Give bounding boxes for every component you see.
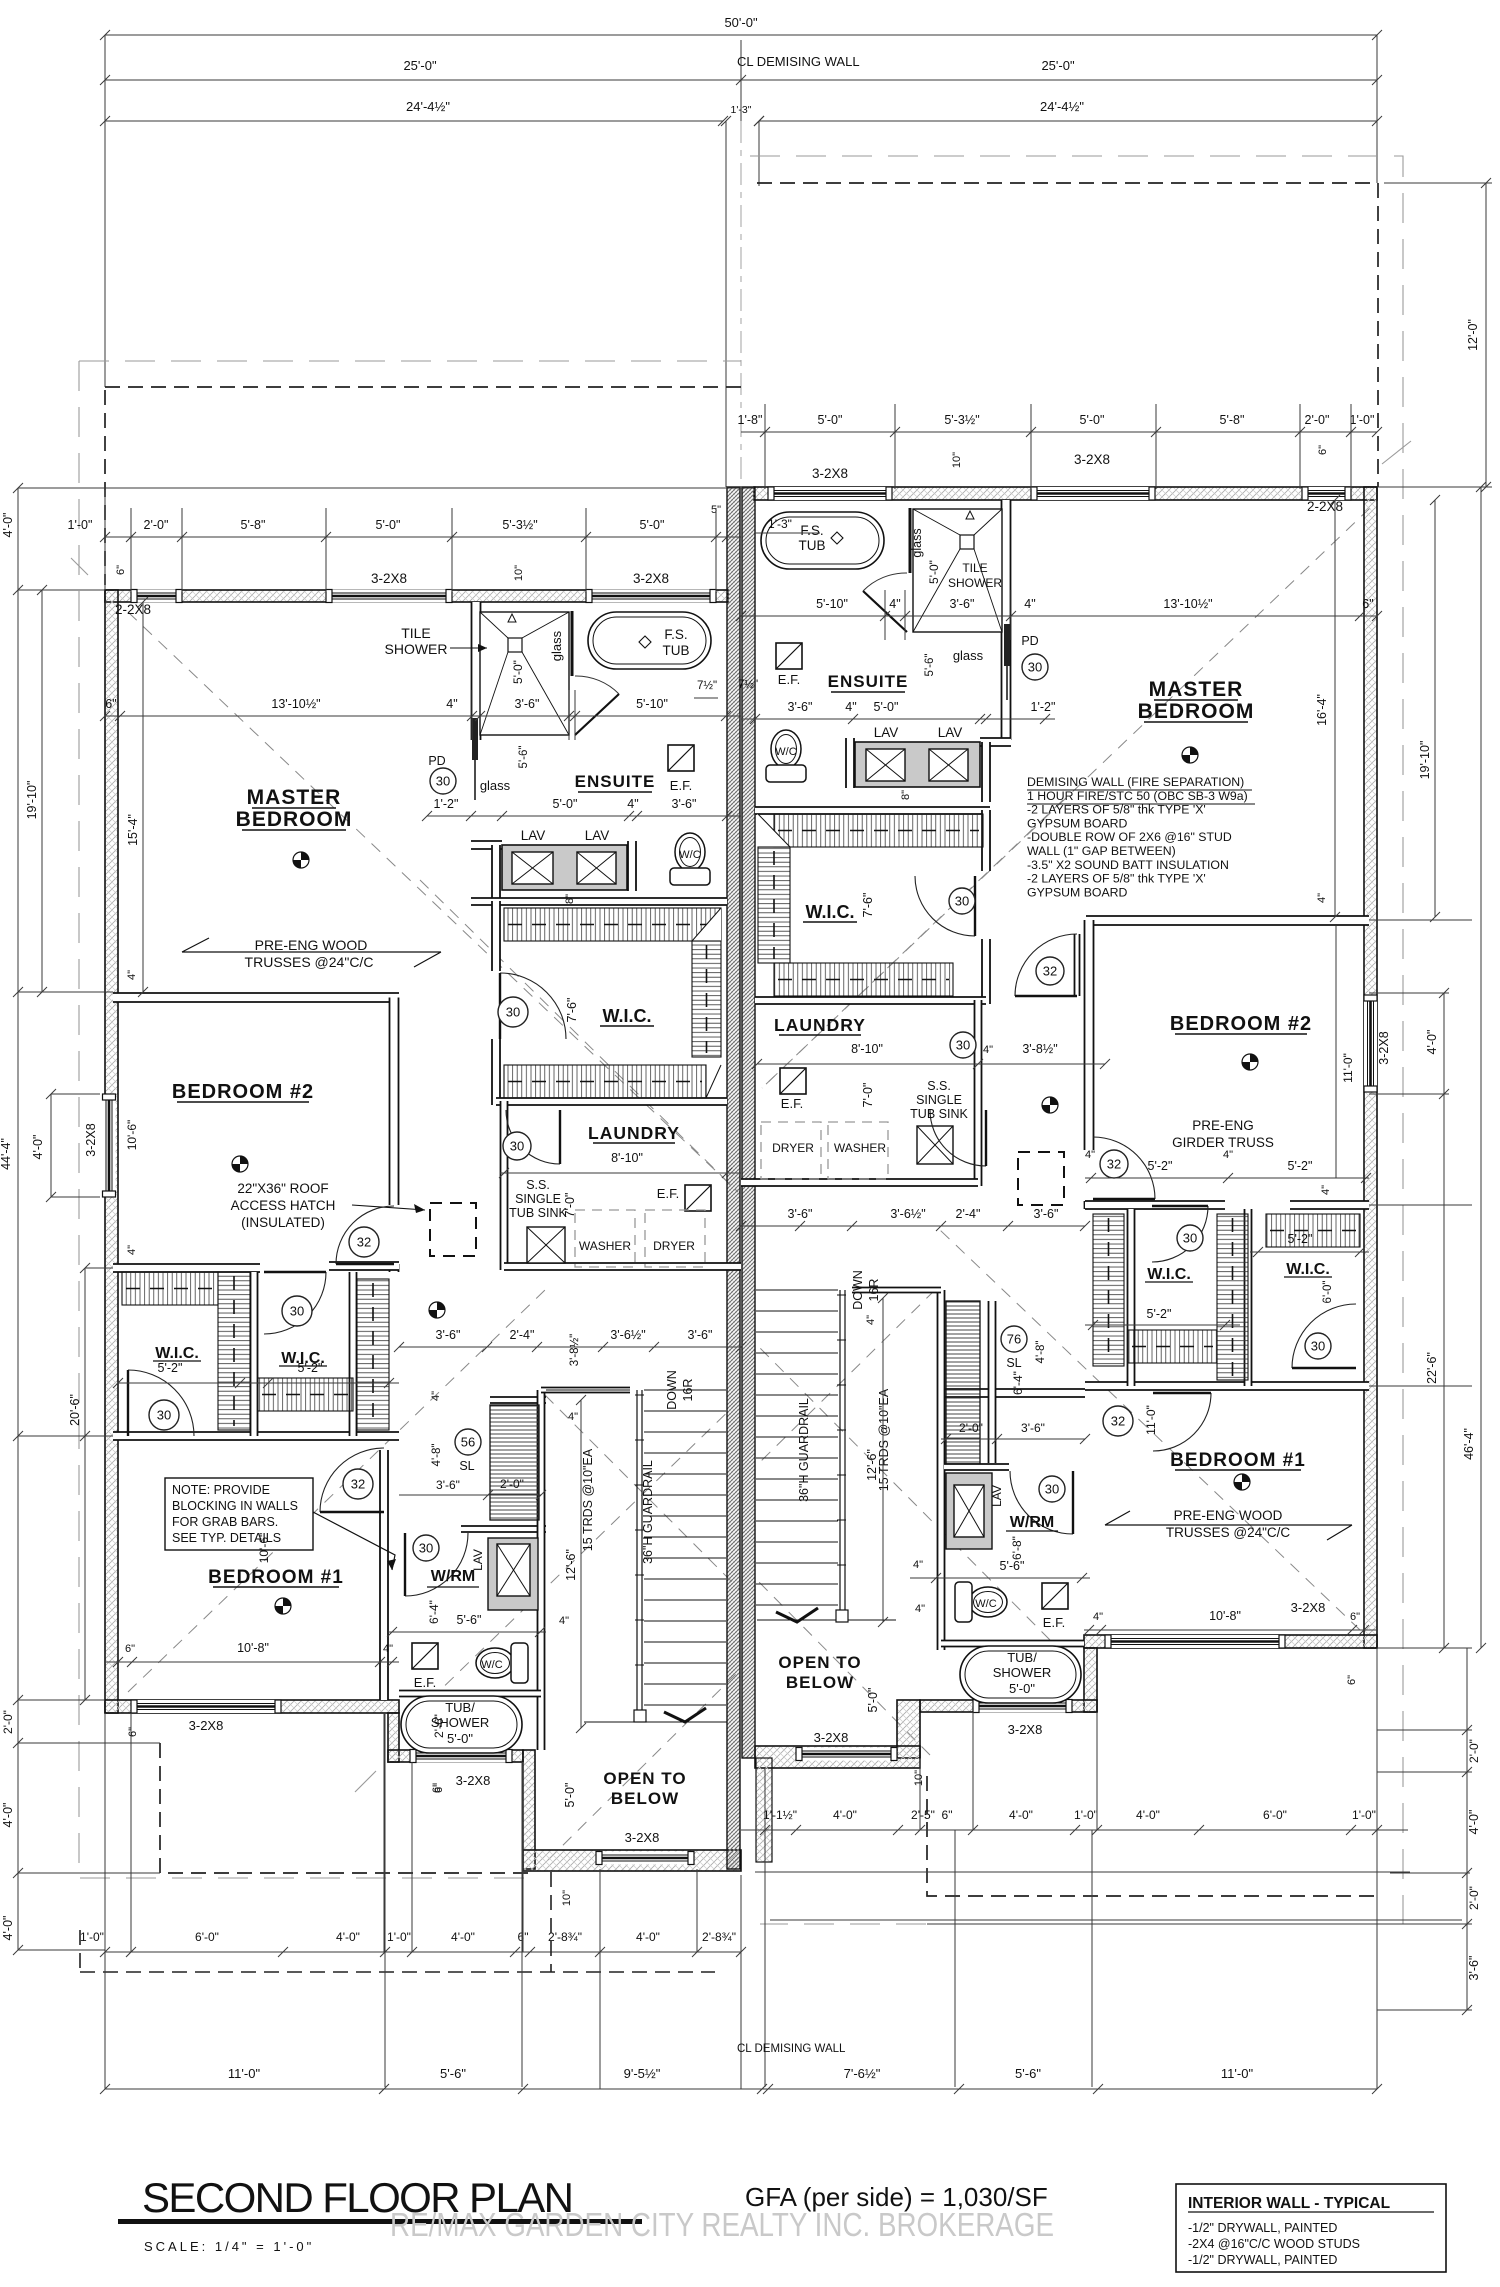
svg-text:22'-6": 22'-6" (1425, 1352, 1439, 1384)
svg-text:3'-6½": 3'-6½" (610, 1328, 645, 1342)
extension lines right ensuite row (884, 590, 886, 640)
svg-text:TUB SINK: TUB SINK (910, 1107, 968, 1121)
shower right glass door diag (863, 591, 907, 632)
svg-text:5'-2": 5'-2" (1288, 1232, 1313, 1246)
roof slope dashed diagonals left unit (128, 508, 1370, 1860)
svg-text:MASTER: MASTER (1149, 678, 1244, 701)
svg-text:24'-4½": 24'-4½" (1040, 99, 1084, 114)
svg-text:1'-1½": 1'-1½" (763, 1808, 797, 1822)
svg-text:5'-6": 5'-6" (518, 746, 530, 769)
svg-text:BEDROOM: BEDROOM (236, 808, 353, 831)
wall wic/laundry divider (496, 1098, 727, 1105)
svg-text:5'-0": 5'-0" (874, 700, 899, 714)
shower right unit pan (913, 509, 1002, 632)
svg-text:3'-6": 3'-6" (515, 697, 540, 711)
svg-text:4": 4" (1085, 1149, 1095, 1161)
svg-text:LAUNDRY: LAUNDRY (774, 1015, 866, 1035)
svg-text:PRE-ENG: PRE-ENG (1192, 1118, 1254, 1133)
svg-text:7½": 7½" (697, 680, 717, 692)
svg-text:5'-2": 5'-2" (158, 1361, 183, 1375)
svg-text:2'-0": 2'-0" (959, 1421, 983, 1435)
svg-text:F.S.: F.S. (800, 523, 823, 538)
svg-text:30: 30 (419, 1541, 433, 1556)
svg-text:5'-2": 5'-2" (1148, 1159, 1173, 1173)
svg-text:3-2X8: 3-2X8 (633, 571, 669, 586)
svg-text:3'-8½": 3'-8½" (1022, 1042, 1057, 1056)
svg-text:4": 4" (1320, 1185, 1332, 1195)
svg-text:4'-0": 4'-0" (1136, 1808, 1160, 1822)
door 30 left wic2 closet (264, 1272, 326, 1334)
toilet left wrm (476, 1648, 514, 1678)
svg-text:12'-0": 12'-0" (1466, 319, 1480, 351)
svg-text:glass: glass (910, 528, 924, 557)
svg-text:6": 6" (1362, 597, 1373, 611)
lav right wrm (946, 1473, 992, 1549)
door 30 right wic (915, 876, 975, 936)
door 30 right wrm (1010, 1471, 1073, 1534)
door 32 right bedroom1 (1153, 1393, 1211, 1451)
dimension hall row left (399, 1346, 741, 1348)
svg-text:GFA (per side) = 1,030/SF: GFA (per side) = 1,030/SF (745, 2182, 1048, 2212)
pocket door dark bar right shower (1004, 624, 1010, 666)
svg-text:GIRDER TRUSS: GIRDER TRUSS (1172, 1135, 1274, 1150)
svg-text:3-2X8: 3-2X8 (1074, 452, 1110, 467)
wire CL centerline top (740, 40, 742, 121)
door 30 left laundry (506, 1110, 560, 1164)
svg-text:6'-0": 6'-0" (195, 1930, 219, 1944)
svg-text:4": 4" (430, 1391, 442, 1401)
wire extension right top (1376, 35, 1378, 183)
svg-text:3'-6": 3'-6" (1034, 1207, 1059, 1221)
wall bedroom2 east (390, 998, 399, 1206)
svg-text:W/C: W/C (481, 1659, 502, 1671)
svg-text:E.F.: E.F. (1043, 1615, 1065, 1630)
svg-text:4": 4" (889, 597, 900, 611)
svg-text:5'-10": 5'-10" (636, 697, 668, 711)
svg-text:4": 4" (559, 1615, 569, 1627)
roof slope dashed diagonals right unit (762, 508, 1370, 1088)
svg-text:WASHER: WASHER (834, 1141, 887, 1155)
svg-text:12'-6": 12'-6" (564, 1549, 578, 1581)
wall vanity west (492, 845, 500, 905)
svg-text:TILE: TILE (962, 561, 987, 575)
svg-text:3'-6": 3'-6" (688, 1328, 713, 1342)
svg-text:10": 10" (513, 565, 525, 581)
wall right master south (1086, 916, 1369, 925)
svg-text:3-2X8: 3-2X8 (625, 1830, 660, 1845)
stair left unit treads (644, 1390, 726, 1705)
roofline left unit (black dashed) (105, 386, 741, 388)
node star bedroom2 right (1242, 1054, 1258, 1070)
wire CL centerline bottom (740, 1875, 742, 2089)
svg-text:3-2X8: 3-2X8 (371, 571, 407, 586)
svg-text:4": 4" (845, 700, 856, 714)
svg-text:10'-8": 10'-8" (1209, 1609, 1241, 1623)
guard louver band left (56 SL) (490, 1405, 539, 1520)
wall wic west upper (492, 901, 500, 971)
exhaust fan right wrm (1042, 1583, 1068, 1609)
roofline right unit (black dashed) (105, 183, 1378, 1896)
wall closets top (113, 1264, 260, 1272)
svg-text:5'-10": 5'-10" (816, 597, 848, 611)
wall ensuite/wic divider (471, 898, 727, 905)
svg-text:10'-6": 10'-6" (125, 1120, 139, 1151)
wall right laundry south (741, 1179, 978, 1186)
svg-text:5'-6": 5'-6" (924, 654, 936, 677)
stair left opening edge (584, 1721, 727, 1723)
wall right vanity east cap (846, 738, 854, 788)
svg-text:10'-8": 10'-8" (237, 1641, 269, 1655)
laundry tub sink left (527, 1227, 565, 1263)
svg-text:TUB SINK: TUB SINK (509, 1206, 567, 1220)
wall right wic east upper (982, 810, 990, 871)
svg-text:W.I.C.: W.I.C. (806, 902, 855, 922)
svg-text:8'-10": 8'-10" (611, 1151, 643, 1165)
window W3 3-2X8 left top (586, 590, 716, 603)
door 30 right wic-east closet (1292, 1304, 1356, 1368)
tub/shower right wrm (960, 1646, 1081, 1703)
svg-text:DOWN: DOWN (851, 1270, 865, 1310)
svg-text:WALL (1" GAP BETWEEN): WALL (1" GAP BETWEEN) (1027, 844, 1176, 858)
dimension bottom row left unit (105, 1951, 741, 1953)
svg-text:15 TRDS @10"EA: 15 TRDS @10"EA (581, 1448, 595, 1551)
svg-text:7'-6": 7'-6" (861, 893, 875, 918)
svg-text:BEDROOM #1: BEDROOM #1 (1170, 1450, 1306, 1471)
svg-text:7'-6": 7'-6" (565, 998, 579, 1023)
svg-text:11'-0": 11'-0" (228, 2066, 261, 2081)
svg-text:4'-0": 4'-0" (31, 1135, 45, 1160)
svg-text:25'-0": 25'-0" (403, 58, 437, 73)
window W1 2-2X8 left top (131, 590, 182, 603)
svg-text:W/RM: W/RM (1010, 1514, 1054, 1531)
wall laundry west (501, 1101, 508, 1270)
wall right bedroom2 west (1085, 920, 1094, 1150)
toilet left ensuite W/C (675, 833, 705, 871)
svg-text:MASTER: MASTER (247, 786, 342, 809)
svg-text:TUB: TUB (663, 643, 690, 658)
svg-text:3'-6": 3'-6" (672, 797, 697, 811)
svg-text:4": 4" (383, 1643, 393, 1655)
wall right wrm north (944, 1464, 1009, 1470)
node star bedroom2 left (232, 1156, 248, 1172)
svg-text:SINGLE: SINGLE (515, 1192, 561, 1206)
shower right glass panel (909, 508, 912, 573)
svg-text:11'-0": 11'-0" (1144, 1405, 1158, 1435)
svg-text:6'-4": 6'-4" (1011, 1371, 1025, 1395)
svg-text:2'-0": 2'-0" (1467, 1886, 1481, 1910)
svg-text:LAV: LAV (521, 828, 546, 843)
window right top 3-2X8 b (1031, 487, 1155, 500)
wall right hall-stair top (852, 1288, 941, 1293)
svg-text:4'-8": 4'-8" (431, 1444, 443, 1467)
window right top 3-2X8 a (768, 487, 892, 500)
stair right unit treads (756, 1290, 838, 1605)
wall left vanity east cap (628, 841, 636, 891)
svg-text:FOR GRAB BARS.: FOR GRAB BARS. (172, 1515, 278, 1529)
svg-text:W/C: W/C (975, 1598, 996, 1610)
svg-text:5'-0": 5'-0" (640, 518, 665, 532)
svg-text:4": 4" (1024, 597, 1035, 611)
svg-text:5'-0": 5'-0" (376, 518, 401, 532)
window right stair bay south 3-2X8 (796, 1748, 897, 1761)
svg-text:2-2X8: 2-2X8 (1307, 499, 1343, 514)
closet shelving wic top band (504, 908, 721, 941)
wall right hall west / stair guard wall (938, 1290, 945, 1592)
window right wrm bay south 3-2X8 (973, 1700, 1072, 1713)
dimension 24-4half right (759, 120, 1377, 122)
dimension left margin 19-10 (41, 590, 43, 992)
svg-text:10": 10" (561, 1890, 573, 1906)
dimension row right top windows (741, 431, 1377, 433)
wall closet mid divider (251, 1272, 258, 1436)
toilet right wrm (969, 1587, 1007, 1617)
svg-text:6'-0": 6'-0" (1322, 1281, 1334, 1304)
svg-text:2'-8¾": 2'-8¾" (702, 1930, 736, 1944)
svg-text:LAV: LAV (874, 725, 899, 740)
wall right-unit stair bay south (755, 1746, 920, 1768)
svg-text:ACCESS HATCH: ACCESS HATCH (231, 1198, 336, 1213)
svg-text:-DOUBLE ROW OF 2X6 @16" STUD: -DOUBLE ROW OF 2X6 @16" STUD (1027, 830, 1232, 844)
svg-text:24'-4½": 24'-4½" (406, 99, 450, 114)
svg-text:30: 30 (956, 1038, 970, 1053)
laundry tub sink right (917, 1126, 953, 1164)
window right wall 3-2X8 (1364, 995, 1377, 1092)
svg-text:3'-6": 3'-6" (436, 1478, 460, 1492)
svg-text:1'-2": 1'-2" (434, 797, 459, 811)
svg-text:4": 4" (1223, 1149, 1233, 1161)
svg-text:6": 6" (1346, 1675, 1358, 1685)
svg-text:6": 6" (1317, 445, 1329, 455)
svg-text:BEDROOM #2: BEDROOM #2 (172, 1081, 314, 1103)
svg-text:W.I.C.: W.I.C. (155, 1345, 199, 1362)
title underline bar (118, 2219, 642, 2224)
svg-text:32: 32 (351, 1477, 365, 1492)
dimension row left ensuite upper (105, 715, 741, 717)
closet shelving right wic west bottom band (1128, 1330, 1217, 1363)
node light/smoke star master left (293, 852, 309, 868)
closet shelving right wic bottom band (774, 963, 953, 996)
wall wrm/tub divider (399, 1691, 541, 1697)
svg-text:4": 4" (126, 1245, 138, 1255)
dimension right margin 12-0 (1485, 183, 1487, 487)
dimension right margin 19-10 (1434, 500, 1436, 917)
svg-text:30: 30 (1311, 1339, 1325, 1354)
svg-text:TUB/: TUB/ (1007, 1650, 1037, 1665)
svg-text:15 TRDS @10"EA: 15 TRDS @10"EA (877, 1388, 891, 1491)
extension lines right window dims (764, 404, 766, 489)
marker 76 SL right (1001, 1326, 1027, 1352)
svg-text:4'-0": 4'-0" (1467, 1810, 1481, 1835)
svg-text:11'-0": 11'-0" (1221, 2066, 1254, 2081)
svg-text:8'-10": 8'-10" (851, 1042, 883, 1056)
svg-text:CL DEMISING WALL: CL DEMISING WALL (737, 54, 860, 69)
svg-text:W/RM: W/RM (431, 1568, 475, 1585)
svg-text:3'-6": 3'-6" (1021, 1421, 1045, 1435)
svg-text:3'-8½": 3'-8½" (569, 1334, 581, 1367)
svg-text:4": 4" (913, 1559, 923, 1571)
closet hatch column right mid (1217, 1214, 1248, 1380)
window W2 3-2X8 left top (326, 590, 452, 603)
svg-text:NOTE: PROVIDE: NOTE: PROVIDE (172, 1483, 270, 1497)
svg-text:10'-6": 10'-6" (257, 1533, 271, 1564)
svg-text:3-2X8: 3-2X8 (1377, 1031, 1391, 1064)
svg-text:2'-0": 2'-0" (1467, 1739, 1481, 1763)
svg-text:DRYER: DRYER (653, 1239, 695, 1253)
door 30 right wic-west closet (1152, 1206, 1208, 1262)
svg-text:5'-0": 5'-0" (447, 1731, 473, 1746)
svg-text:2-2X8: 2-2X8 (115, 602, 151, 617)
svg-text:5'-0": 5'-0" (866, 1688, 880, 1713)
svg-text:16R: 16R (867, 1279, 881, 1302)
svg-text:CL DEMISING WALL: CL DEMISING WALL (737, 2043, 846, 2055)
svg-text:5'-0": 5'-0" (553, 797, 578, 811)
svg-text:3'-6": 3'-6" (1467, 1956, 1481, 1981)
exhaust fan left wrm (412, 1643, 438, 1669)
svg-text:30: 30 (290, 1304, 304, 1319)
wall right hall door leaf wall (1075, 934, 1080, 996)
wall master/bedroom2 divider (113, 993, 399, 1002)
svg-text:S.S.: S.S. (526, 1178, 550, 1192)
window bedroom1 south 3-2X8 (131, 1700, 281, 1713)
wall left-unit west exterior (105, 590, 118, 1713)
wall right guard band east (989, 1301, 996, 1463)
svg-text:5'-0": 5'-0" (927, 560, 941, 584)
svg-text:36"H GUARDRAIL: 36"H GUARDRAIL (797, 1398, 811, 1502)
demising wall left leaf (727, 487, 740, 1869)
svg-text:12'-6": 12'-6" (865, 1449, 879, 1481)
wall right-unit east exterior (1364, 487, 1377, 1648)
wall shower west left-unit (472, 602, 481, 740)
svg-text:1'-0": 1'-0" (1352, 1808, 1376, 1822)
svg-text:W/C: W/C (679, 849, 700, 861)
svg-text:6": 6" (105, 697, 116, 711)
wall right-unit wrm bay east (1084, 1648, 1097, 1712)
interior wall legend box (1176, 2184, 1446, 2272)
svg-text:OPEN TO: OPEN TO (603, 1769, 686, 1788)
svg-text:8": 8" (900, 790, 912, 800)
svg-text:30: 30 (955, 894, 969, 909)
svg-text:4'-0": 4'-0" (1, 1916, 15, 1941)
svg-text:30: 30 (1183, 1231, 1197, 1246)
extension lines right margin (1377, 486, 1472, 488)
svg-text:4": 4" (865, 1315, 877, 1325)
svg-text:36"H GUARDRAIL: 36"H GUARDRAIL (641, 1460, 655, 1564)
node star master right (1182, 747, 1198, 763)
svg-text:5'-6": 5'-6" (1015, 2066, 1041, 2081)
svg-text:30: 30 (1045, 1482, 1059, 1497)
wall bedroom2 east lower stub (390, 1264, 399, 1272)
wall wrm east (538, 1692, 545, 1750)
wall right ensuite/wic divider (755, 807, 990, 814)
wall right-unit bedroom1 south exterior (1084, 1635, 1377, 1648)
svg-text:3'-6½": 3'-6½" (890, 1207, 925, 1221)
washer dryer dashed left (575, 1210, 635, 1267)
stair right down arrow chevron (776, 1608, 818, 1622)
svg-text:7'-0": 7'-0" (861, 1083, 875, 1108)
wall right shower east (1002, 500, 1011, 740)
wall right closets top (1085, 1201, 1225, 1209)
dimension right margin 46-4 (1480, 487, 1482, 1648)
demising stub below right bay (756, 1758, 772, 1862)
svg-text:6": 6" (1350, 1611, 1360, 1623)
svg-text:3'-6": 3'-6" (436, 1328, 461, 1342)
svg-text:SINGLE: SINGLE (916, 1093, 962, 1107)
svg-text:PD: PD (428, 754, 445, 768)
dimension wrm right 5-6 (910, 1577, 1090, 1579)
svg-text:6": 6" (942, 1808, 953, 1822)
svg-text:1'-0": 1'-0" (80, 1930, 104, 1944)
svg-text:2'-8¾": 2'-8¾" (548, 1930, 582, 1944)
svg-text:19'-10": 19'-10" (25, 781, 39, 820)
dimension right bedroom2 5-2 row (1085, 1177, 1369, 1179)
svg-text:-2X4 @16"C/C WOOD STUDS: -2X4 @16"C/C WOOD STUDS (1188, 2237, 1360, 2251)
dimension right margin window extension lines (1369, 992, 1449, 994)
svg-text:3'-6": 3'-6" (950, 597, 975, 611)
dimension 50-0 overall top (105, 34, 1377, 36)
svg-text:WASHER: WASHER (579, 1239, 632, 1253)
svg-text:11'-0": 11'-0" (1341, 1053, 1355, 1083)
svg-text:6": 6" (127, 1727, 139, 1737)
svg-text:glass: glass (953, 648, 984, 663)
wall right wic/laundry divider (755, 997, 986, 1004)
window right bedroom1 south 3-2X8 (1105, 1635, 1285, 1648)
window left wall 3-2X8 bedroom2 (103, 1094, 116, 1197)
svg-text:4": 4" (983, 1044, 993, 1056)
wall right laundry east (975, 1000, 982, 1186)
svg-text:3-2X8: 3-2X8 (814, 1730, 849, 1745)
wire extension left top (104, 35, 106, 387)
shower left unit pan (480, 612, 569, 735)
svg-text:46'-4": 46'-4" (1462, 1428, 1476, 1460)
svg-text:5'-8": 5'-8" (241, 518, 266, 532)
wall right-unit wrm bay south (920, 1700, 1097, 1712)
wall right wic east lower (982, 939, 990, 1004)
svg-text:TILE: TILE (401, 625, 431, 641)
dimension bedroom1 left bottom (105, 1661, 399, 1663)
wall right-unit stair bay east (897, 1700, 920, 1758)
wall vanity nook top (471, 841, 502, 849)
svg-text:ENSUITE: ENSUITE (575, 772, 656, 791)
svg-text:LAV: LAV (990, 1485, 1004, 1507)
svg-text:4'-0": 4'-0" (451, 1930, 475, 1944)
svg-text:4": 4" (1093, 1611, 1103, 1623)
svg-text:-1/2" DRYWALL, PAINTED: -1/2" DRYWALL, PAINTED (1188, 2253, 1337, 2267)
svg-text:TUB/: TUB/ (445, 1700, 475, 1715)
closet hatch column mid (218, 1272, 250, 1430)
tub F.S. right unit (761, 512, 884, 569)
svg-text:5'-6": 5'-6" (1000, 1559, 1025, 1573)
tub diamond symbol left (639, 636, 651, 648)
dimension row left vanity (427, 815, 741, 817)
svg-text:2'-5": 2'-5" (911, 1808, 935, 1822)
svg-text:4'-0": 4'-0" (1, 513, 15, 538)
extension lines left window dims (130, 508, 132, 592)
svg-text:3'-6": 3'-6" (788, 1207, 813, 1221)
svg-text:W/C: W/C (775, 746, 796, 758)
dimension 25-0 right (741, 79, 1377, 81)
svg-text:56: 56 (461, 1435, 475, 1450)
svg-text:BLOCKING IN WALLS: BLOCKING IN WALLS (172, 1499, 298, 1513)
wall bedroom1 east (380, 1450, 388, 1700)
svg-text:44'-4": 44'-4" (0, 1138, 13, 1170)
svg-text:SHOWER: SHOWER (993, 1665, 1052, 1680)
svg-text:3-2X8: 3-2X8 (189, 1718, 224, 1733)
svg-text:-3.5" X2 SOUND BATT INSULATION: -3.5" X2 SOUND BATT INSULATION (1027, 858, 1229, 872)
svg-text:4'-0": 4'-0" (1009, 1808, 1033, 1822)
closet shelving right wic top band (774, 814, 983, 847)
extension lines bottom (104, 1713, 106, 2089)
note grab bars box left (165, 1478, 313, 1550)
